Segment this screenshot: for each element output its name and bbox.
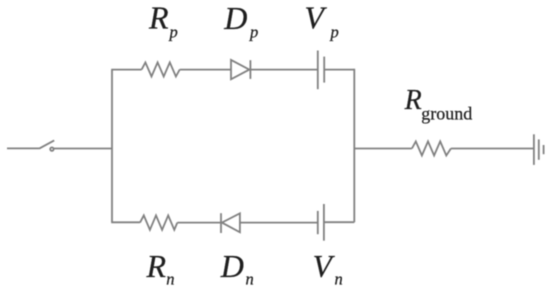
wire Dn to Vn xyxy=(240,222,318,224)
diode Dn triangle xyxy=(222,213,240,232)
svg-text:n: n xyxy=(335,269,343,288)
label Rground xyxy=(404,85,473,124)
svg-text:D: D xyxy=(220,248,244,284)
wire Vp to top-right corner xyxy=(324,69,354,71)
svg-text:R: R xyxy=(146,248,167,284)
battery Vp long plate xyxy=(317,51,319,90)
label Rp xyxy=(148,0,178,41)
wire right vertical bus xyxy=(353,69,355,222)
wire bottom-left segment xyxy=(111,221,140,223)
svg-text:p: p xyxy=(169,22,178,41)
battery Vp short plate xyxy=(323,57,325,83)
wire Vn to bottom-right corner xyxy=(324,221,354,223)
resistor Rn xyxy=(140,215,177,229)
svg-text:V: V xyxy=(304,0,327,36)
label Rn xyxy=(146,248,175,289)
wire Dp to Vp xyxy=(250,69,317,71)
diode Dp triangle xyxy=(231,60,249,79)
resistor Rground xyxy=(412,141,451,155)
ground bar short xyxy=(543,145,545,154)
svg-text:ground: ground xyxy=(421,104,472,124)
svg-text:D: D xyxy=(223,0,247,36)
wire left vertical bus xyxy=(111,70,113,223)
wire left lead xyxy=(7,147,39,149)
svg-text:p: p xyxy=(330,22,339,41)
svg-text:R: R xyxy=(148,0,169,36)
switch S1 blade xyxy=(39,140,54,148)
switch S1 contact circle xyxy=(50,147,53,150)
svg-text:V: V xyxy=(313,249,336,284)
battery Vn short plate xyxy=(317,211,319,234)
wire Rground to ground xyxy=(451,148,534,150)
ground bar middle xyxy=(538,139,540,159)
battery Vn long plate xyxy=(323,204,325,241)
wire Rp to Dp xyxy=(180,69,231,71)
diode Dn cathode bar xyxy=(220,213,222,233)
wire Rn to Dn xyxy=(177,222,221,224)
svg-text:n: n xyxy=(246,269,254,288)
svg-text:p: p xyxy=(249,22,258,41)
label Vp xyxy=(304,0,338,41)
diode Dp cathode bar xyxy=(249,60,251,79)
label Vn xyxy=(313,249,343,289)
wire top-left segment xyxy=(111,69,141,71)
svg-text:R: R xyxy=(404,85,422,116)
wire switch to node xyxy=(54,148,112,150)
label Dp xyxy=(223,0,258,41)
svg-text:n: n xyxy=(166,269,174,288)
label Dn xyxy=(220,248,254,288)
resistor Rp xyxy=(142,62,180,76)
ground bar long xyxy=(533,134,535,165)
wire node to Rground xyxy=(354,148,412,150)
